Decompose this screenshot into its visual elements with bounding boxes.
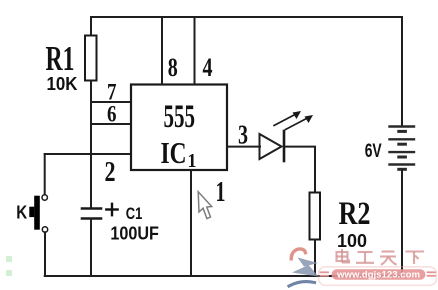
wire pin 7 (91, 101, 131, 103)
wire switch top (44, 154, 46, 195)
svg-text:10K: 10K (47, 73, 79, 94)
svg-text:IC: IC (161, 135, 187, 170)
char dian (337, 252, 348, 261)
watermark logo (289, 249, 319, 286)
wire switch bottom (44, 232, 46, 276)
LED light arrow 2 (286, 119, 307, 130)
watermark text 电工天下 (337, 249, 425, 265)
wire R1 top (90, 17, 92, 36)
LED D1 triangle (260, 134, 282, 159)
svg-text:1: 1 (188, 150, 197, 172)
svg-text:2: 2 (105, 156, 116, 188)
svg-text:4: 4 (203, 53, 213, 82)
char gong (358, 251, 373, 253)
LED D1 cathode bar (283, 131, 286, 161)
svg-text:C1: C1 (126, 204, 143, 223)
wire pin 8 (161, 17, 163, 85)
switch K actuator bump (29, 207, 34, 217)
resistor R1 (85, 36, 97, 81)
watermark dots (6, 256, 12, 262)
svg-text:3: 3 (238, 120, 248, 150)
svg-text:6: 6 (107, 102, 117, 127)
capacitor C1 bottom plate (82, 217, 101, 220)
svg-text:R2: R2 (339, 196, 371, 232)
wire R2 bottom (314, 240, 316, 277)
watermark url bar (319, 267, 437, 286)
wire left branch (R1 bottom to C1 top) (90, 81, 92, 209)
char tian (382, 250, 395, 252)
switch K top contact (42, 195, 47, 200)
svg-text:1: 1 (216, 176, 226, 208)
LED light arrow 1 (274, 115, 295, 126)
wire battery top (401, 17, 403, 127)
wire pin 6 (91, 123, 131, 125)
resistor R2 (310, 193, 321, 240)
capacitor C1 top plate (82, 207, 101, 210)
svg-text:K: K (16, 203, 27, 223)
wire C1 bottom (90, 219, 92, 277)
svg-text:6V: 6V (365, 141, 382, 162)
wire pin 2 (to switch branch) (45, 153, 131, 155)
svg-text:www.dgjs123.com: www.dgjs123.com (336, 269, 420, 280)
wire top rail (91, 16, 402, 18)
capacitor C1 plus sign (106, 208, 117, 210)
svg-text:8: 8 (168, 53, 178, 82)
op-amp/timer IC1 555 box (131, 85, 227, 171)
battery BT1 plates (390, 127, 415, 170)
switch K bottom contact (42, 227, 47, 232)
wire pin 4 (194, 17, 196, 85)
wire pin 3 (227, 146, 260, 148)
mouse cursor (198, 192, 212, 219)
wire bottom rail (45, 275, 402, 277)
svg-text:555: 555 (164, 99, 196, 135)
wire battery bottom (401, 171, 403, 277)
char xia (406, 250, 425, 252)
wire pin 1 (190, 170, 192, 276)
svg-text:100: 100 (337, 231, 367, 251)
svg-text:100UF: 100UF (110, 224, 158, 244)
wire LED to R2 (284, 147, 315, 193)
switch K button bar (34, 196, 40, 230)
